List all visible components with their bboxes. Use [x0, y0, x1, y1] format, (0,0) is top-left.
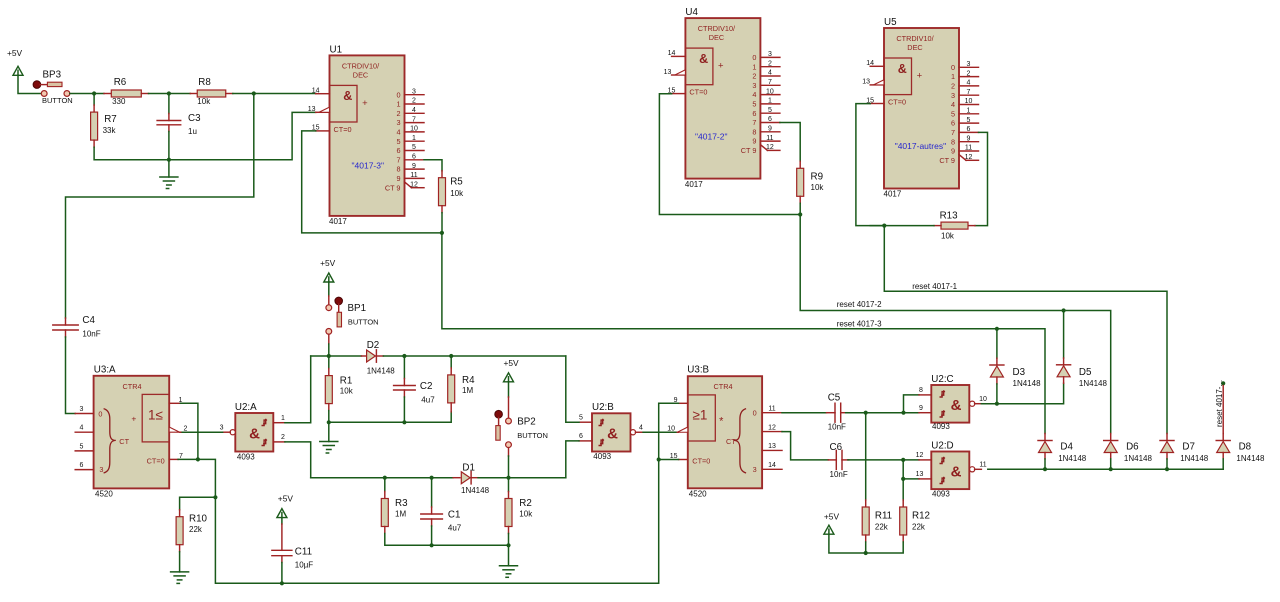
svg-text:9: 9: [967, 135, 971, 142]
svg-text:1: 1: [752, 62, 756, 71]
svg-text:1: 1: [281, 415, 285, 422]
svg-text:2: 2: [396, 109, 400, 118]
svg-text:+5V: +5V: [504, 358, 520, 368]
svg-text:CT 9: CT 9: [741, 146, 757, 155]
svg-text:6: 6: [752, 109, 756, 118]
svg-text:4017: 4017: [329, 217, 347, 226]
svg-text:8: 8: [752, 127, 756, 136]
svg-text:R4: R4: [462, 375, 475, 386]
svg-text:*: *: [719, 416, 724, 428]
svg-text:C2: C2: [420, 381, 433, 392]
svg-text:12: 12: [768, 424, 776, 431]
svg-text:10µF: 10µF: [295, 561, 314, 570]
svg-text:2: 2: [768, 60, 772, 67]
svg-text:CT 9: CT 9: [939, 156, 955, 165]
svg-text:11: 11: [766, 135, 773, 142]
svg-text:1N4148: 1N4148: [1079, 379, 1108, 388]
svg-text:7: 7: [768, 79, 772, 86]
svg-text:14: 14: [866, 60, 874, 67]
svg-text:8: 8: [919, 387, 923, 394]
svg-text:+: +: [718, 61, 724, 72]
svg-text:3: 3: [396, 118, 400, 127]
svg-text:9: 9: [412, 163, 416, 170]
svg-text:&: &: [951, 397, 962, 414]
svg-text:6: 6: [967, 126, 971, 133]
svg-text:4: 4: [412, 107, 416, 114]
svg-text:1: 1: [412, 135, 416, 142]
svg-text:C1: C1: [448, 510, 461, 521]
svg-text:6: 6: [412, 154, 416, 161]
svg-text:1N4148: 1N4148: [1124, 454, 1153, 463]
svg-text:4093: 4093: [593, 452, 611, 461]
svg-text:13: 13: [916, 471, 924, 478]
svg-text:BUTTON: BUTTON: [517, 431, 548, 440]
svg-text:11: 11: [410, 172, 417, 179]
svg-text:14: 14: [312, 88, 320, 95]
svg-text:3: 3: [768, 51, 772, 58]
svg-text:1M: 1M: [462, 386, 473, 395]
svg-text:7: 7: [412, 116, 416, 123]
svg-text:1M: 1M: [395, 510, 406, 519]
svg-text:D6: D6: [1126, 442, 1139, 453]
svg-text:U5: U5: [884, 17, 897, 28]
svg-text:D3: D3: [1013, 367, 1026, 378]
svg-text:U3:A: U3:A: [94, 364, 116, 375]
svg-text:R5: R5: [450, 177, 463, 188]
svg-text:10k: 10k: [519, 510, 533, 519]
svg-text:reset 4017-3: reset 4017-3: [837, 319, 882, 328]
svg-text:5: 5: [412, 144, 416, 151]
svg-text:10: 10: [410, 126, 418, 133]
svg-text:D2: D2: [367, 340, 380, 351]
svg-text:1: 1: [396, 100, 400, 109]
svg-text:6: 6: [768, 116, 772, 123]
svg-text:330: 330: [112, 97, 126, 106]
svg-text:4093: 4093: [932, 489, 950, 498]
svg-text:"4017-2": "4017-2": [695, 132, 728, 142]
svg-text:&: &: [607, 425, 618, 442]
svg-text:1N4148: 1N4148: [1058, 454, 1087, 463]
svg-text:+5V: +5V: [320, 258, 336, 268]
svg-text:3: 3: [220, 425, 224, 432]
svg-text:+5V: +5V: [278, 494, 294, 504]
svg-text:10: 10: [965, 98, 973, 105]
svg-text:10k: 10k: [941, 232, 955, 241]
svg-text:4: 4: [967, 80, 971, 87]
svg-text:6: 6: [951, 119, 955, 128]
svg-text:6: 6: [396, 146, 400, 155]
svg-text:C5: C5: [828, 393, 841, 404]
svg-text:9: 9: [768, 126, 772, 133]
svg-text:BUTTON: BUTTON: [348, 318, 379, 327]
svg-text:CT=0: CT=0: [147, 456, 165, 465]
svg-text:1≤: 1≤: [148, 408, 163, 423]
svg-text:7: 7: [951, 128, 955, 137]
svg-text:5: 5: [967, 117, 971, 124]
svg-text:CT 9: CT 9: [385, 183, 401, 192]
svg-text:3: 3: [753, 465, 757, 474]
svg-text:D8: D8: [1239, 442, 1252, 453]
svg-text:9: 9: [396, 174, 400, 183]
svg-text:3: 3: [412, 88, 416, 95]
svg-text:4017: 4017: [685, 180, 703, 189]
svg-text:4017: 4017: [884, 190, 902, 199]
svg-text:CT=0: CT=0: [888, 98, 906, 107]
svg-text:CTRDIV10/: CTRDIV10/: [342, 61, 380, 70]
svg-text:10nF: 10nF: [830, 470, 848, 479]
svg-text:12: 12: [766, 144, 774, 151]
svg-text:10nF: 10nF: [828, 423, 846, 432]
svg-text:3: 3: [80, 406, 84, 413]
svg-text:CT=0: CT=0: [334, 125, 352, 134]
svg-text:1u: 1u: [188, 127, 197, 136]
svg-text:&: &: [699, 52, 708, 66]
svg-text:+: +: [362, 98, 368, 109]
svg-text:6: 6: [80, 462, 84, 469]
svg-text:D7: D7: [1182, 442, 1195, 453]
svg-text:3: 3: [967, 61, 971, 68]
svg-text:&: &: [898, 62, 907, 76]
svg-text:4: 4: [768, 70, 772, 77]
svg-text:U2:B: U2:B: [592, 402, 614, 413]
svg-text:CTR4: CTR4: [713, 382, 732, 391]
svg-text:R1: R1: [340, 376, 353, 387]
svg-text:DEC: DEC: [709, 33, 724, 42]
svg-text:4093: 4093: [237, 453, 255, 462]
svg-text:10k: 10k: [811, 183, 825, 192]
svg-text:CT=0: CT=0: [692, 456, 710, 465]
svg-text:"4017-3": "4017-3": [352, 161, 385, 171]
svg-text:U2:A: U2:A: [235, 402, 257, 413]
svg-text:R10: R10: [189, 514, 208, 525]
svg-text:reset 4017-2: reset 4017-2: [837, 300, 882, 309]
svg-text:8: 8: [396, 165, 400, 174]
svg-text:1N4148: 1N4148: [1013, 379, 1042, 388]
svg-text:13: 13: [664, 69, 672, 76]
svg-text:12: 12: [410, 181, 418, 188]
svg-text:&: &: [343, 89, 352, 103]
svg-text:reset 4017-1: reset 4017-1: [912, 282, 957, 291]
svg-text:4520: 4520: [689, 490, 707, 499]
svg-text:4u7: 4u7: [448, 524, 462, 533]
svg-text:R7: R7: [104, 114, 117, 125]
svg-text:10k: 10k: [450, 189, 464, 198]
svg-text:CT: CT: [726, 437, 736, 446]
svg-text:R8: R8: [198, 77, 211, 88]
svg-text:+: +: [917, 71, 923, 82]
svg-text:4093: 4093: [932, 422, 950, 431]
svg-text:R3: R3: [395, 498, 408, 509]
svg-text:10: 10: [667, 426, 675, 433]
svg-text:"4017-autres": "4017-autres": [895, 141, 946, 151]
svg-text:U2:C: U2:C: [931, 374, 953, 385]
svg-text:1N4148: 1N4148: [367, 367, 396, 376]
svg-text:2: 2: [281, 434, 285, 441]
svg-text:11: 11: [768, 406, 775, 413]
svg-text:CTRDIV10/: CTRDIV10/: [698, 24, 736, 33]
svg-text:7: 7: [396, 155, 400, 164]
svg-text:CTR4: CTR4: [122, 382, 141, 391]
svg-text:3: 3: [99, 465, 103, 474]
svg-text:C6: C6: [830, 442, 843, 453]
svg-text:&: &: [249, 425, 260, 442]
svg-text:D1: D1: [462, 463, 475, 474]
svg-text:DEC: DEC: [353, 70, 368, 79]
svg-text:CT: CT: [119, 437, 129, 446]
svg-text:U4: U4: [685, 7, 698, 18]
svg-text:1N4148: 1N4148: [1180, 454, 1209, 463]
svg-text:0: 0: [752, 53, 756, 62]
svg-text:22k: 22k: [189, 525, 203, 534]
svg-text:4: 4: [951, 100, 955, 109]
svg-text:1: 1: [951, 72, 955, 81]
svg-text:3: 3: [752, 81, 756, 90]
svg-text:10: 10: [979, 396, 987, 403]
svg-text:R9: R9: [811, 172, 824, 183]
svg-text:R12: R12: [912, 511, 930, 522]
svg-text:U1: U1: [330, 45, 343, 56]
svg-text:22k: 22k: [875, 523, 889, 532]
svg-text:BP2: BP2: [517, 417, 536, 428]
svg-text:1N4148: 1N4148: [461, 486, 490, 495]
svg-text:9: 9: [752, 137, 756, 146]
svg-text:CT=0: CT=0: [689, 88, 707, 97]
svg-text:12: 12: [965, 154, 973, 161]
svg-text:11: 11: [965, 145, 972, 152]
svg-text:2: 2: [752, 72, 756, 81]
svg-text:2: 2: [184, 426, 188, 433]
svg-text:7: 7: [752, 118, 756, 127]
svg-text:5: 5: [951, 109, 955, 118]
svg-text:4: 4: [396, 128, 400, 137]
svg-text:R13: R13: [940, 211, 959, 222]
svg-text:U2:D: U2:D: [931, 440, 953, 451]
svg-text:+5V: +5V: [824, 512, 840, 522]
svg-text:BP1: BP1: [348, 303, 367, 314]
svg-text:BUTTON: BUTTON: [42, 96, 73, 105]
svg-text:11: 11: [979, 462, 986, 469]
svg-text:5: 5: [768, 107, 772, 114]
svg-text:33k: 33k: [103, 126, 117, 135]
svg-text:14: 14: [668, 50, 676, 57]
svg-text:4: 4: [80, 425, 84, 432]
svg-text:C11: C11: [295, 547, 312, 558]
svg-text:9: 9: [951, 147, 955, 156]
svg-text:5: 5: [80, 443, 84, 450]
svg-text:13: 13: [862, 79, 870, 86]
svg-text:0: 0: [396, 90, 400, 99]
svg-text:4u7: 4u7: [421, 396, 435, 405]
svg-text:reset 4017-...: reset 4017-...: [1215, 380, 1224, 427]
svg-text:1: 1: [967, 108, 971, 115]
svg-text:5: 5: [396, 137, 400, 146]
svg-text:13: 13: [308, 106, 316, 113]
svg-text:8: 8: [951, 137, 955, 146]
svg-text:4: 4: [752, 90, 756, 99]
svg-text:D4: D4: [1060, 442, 1073, 453]
svg-text:D5: D5: [1079, 367, 1092, 378]
svg-text:1N4148: 1N4148: [1236, 454, 1265, 463]
svg-text:6: 6: [579, 433, 583, 440]
svg-text:DEC: DEC: [907, 43, 922, 52]
svg-text:5: 5: [752, 100, 756, 109]
svg-text:1: 1: [768, 98, 772, 105]
svg-text:0: 0: [98, 409, 102, 418]
svg-text:4: 4: [639, 425, 643, 432]
svg-text:U3:B: U3:B: [687, 365, 709, 376]
svg-text:0: 0: [753, 409, 757, 418]
svg-text:0: 0: [951, 63, 955, 72]
svg-text:10k: 10k: [197, 97, 211, 106]
svg-text:3: 3: [951, 91, 955, 100]
svg-text:14: 14: [768, 462, 776, 469]
svg-text:2: 2: [951, 82, 955, 91]
svg-text:10nF: 10nF: [82, 330, 100, 339]
svg-text:2: 2: [967, 70, 971, 77]
svg-text:9: 9: [919, 405, 923, 412]
svg-text:CTRDIV10/: CTRDIV10/: [896, 34, 934, 43]
svg-text:10: 10: [766, 88, 774, 95]
svg-text:22k: 22k: [912, 523, 926, 532]
svg-text:10k: 10k: [340, 387, 354, 396]
svg-text:4520: 4520: [95, 489, 113, 498]
svg-text:5: 5: [579, 415, 583, 422]
svg-text:12: 12: [916, 452, 924, 459]
svg-text:&: &: [951, 463, 962, 480]
svg-text:R11: R11: [875, 511, 892, 522]
svg-text:≥1: ≥1: [693, 408, 708, 423]
svg-text:+: +: [131, 414, 136, 424]
svg-text:C4: C4: [82, 315, 95, 326]
svg-text:+5V: +5V: [7, 48, 23, 58]
svg-text:BP3: BP3: [43, 70, 62, 81]
svg-text:R6: R6: [114, 77, 127, 88]
svg-text:2: 2: [412, 98, 416, 105]
svg-text:C3: C3: [188, 113, 201, 124]
svg-text:7: 7: [967, 89, 971, 96]
svg-text:R2: R2: [519, 498, 532, 509]
svg-text:13: 13: [768, 443, 776, 450]
